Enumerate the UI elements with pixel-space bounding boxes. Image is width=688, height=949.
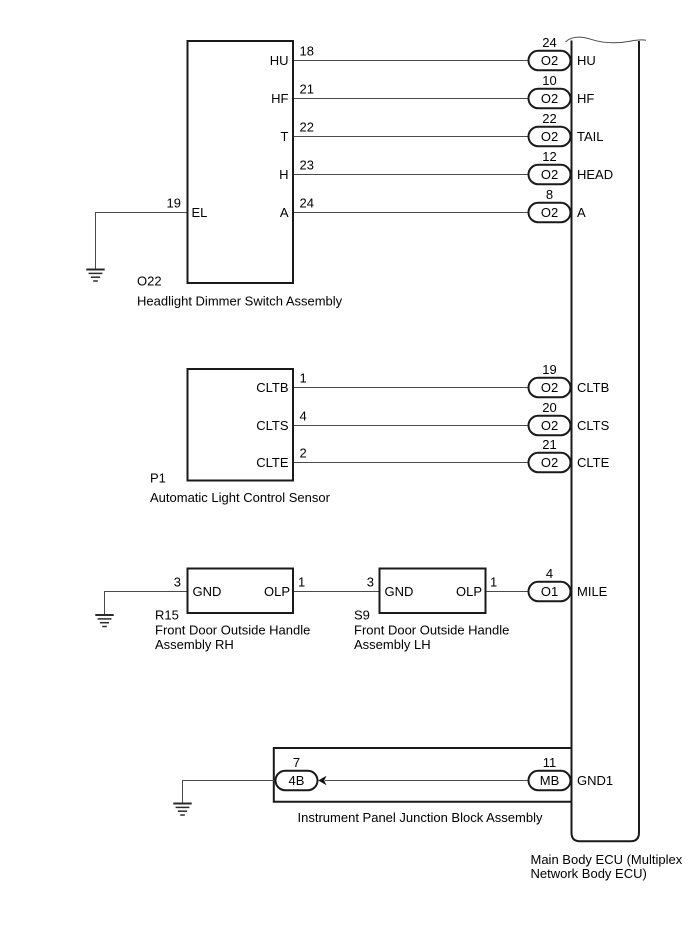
wire O22 pin 24 (A) to ECU connector O2 pin 8	[294, 212, 529, 214]
wire R15 pin 1 to S9 pin 3	[294, 591, 379, 593]
svg-text:23: 23	[300, 158, 314, 173]
svg-text:GND1: GND1	[577, 773, 613, 788]
svg-text:MILE: MILE	[577, 584, 608, 599]
wire ground to junction block connector 4B pin 7	[183, 781, 277, 804]
svg-text:MB: MB	[540, 773, 560, 788]
wire R15 pin 3 to ground	[105, 592, 187, 616]
svg-text:4: 4	[300, 409, 307, 424]
svg-text:2: 2	[300, 446, 307, 461]
connector O2 pin 12	[529, 165, 571, 185]
svg-text:O2: O2	[541, 380, 558, 395]
svg-text:18: 18	[300, 44, 314, 59]
svg-text:HF: HF	[271, 91, 288, 106]
wire P1 pin 2 (CLTE) to ECU connector O2 pin 21	[294, 462, 529, 464]
connector O2 pin 22	[529, 127, 571, 147]
svg-text:HF: HF	[577, 91, 594, 106]
connector 4B pin 7	[276, 771, 318, 791]
svg-text:22: 22	[542, 111, 556, 126]
svg-text:Automatic Light Control Sensor: Automatic Light Control Sensor	[150, 490, 331, 505]
connector O2 pin 19	[529, 378, 571, 398]
svg-text:Assembly LH: Assembly LH	[354, 637, 431, 652]
svg-text:21: 21	[542, 437, 556, 452]
svg-text:1: 1	[298, 575, 305, 590]
svg-text:3: 3	[367, 575, 374, 590]
svg-text:TAIL: TAIL	[577, 129, 604, 144]
svg-text:T: T	[281, 129, 289, 144]
svg-text:7: 7	[293, 755, 300, 770]
ground (EL)	[86, 269, 104, 271]
wire S9 pin 1 to ECU connector O1 pin 4	[487, 591, 529, 593]
connector O2 pin 8	[529, 203, 571, 223]
svg-text:OLP: OLP	[264, 584, 290, 599]
svg-text:19: 19	[542, 362, 556, 377]
svg-text:O2: O2	[541, 418, 558, 433]
svg-text:Assembly RH: Assembly RH	[155, 637, 234, 652]
connector O2 pin 10	[529, 89, 571, 109]
svg-text:4B: 4B	[289, 773, 305, 788]
box Instrument Panel Junction Block Assembly	[274, 748, 572, 802]
svg-text:CLTB: CLTB	[256, 380, 288, 395]
svg-text:24: 24	[300, 196, 314, 211]
connector O1 pin 4	[529, 582, 571, 602]
svg-text:8: 8	[546, 187, 553, 202]
svg-text:CLTS: CLTS	[256, 418, 289, 433]
svg-text:O2: O2	[541, 167, 558, 182]
svg-text:1: 1	[490, 575, 497, 590]
svg-text:HEAD: HEAD	[577, 167, 613, 182]
svg-text:HU: HU	[577, 53, 596, 68]
svg-text:12: 12	[542, 149, 556, 164]
svg-text:Front Door Outside Handle: Front Door Outside Handle	[155, 623, 310, 638]
wire O22 pin 22 (T) to ECU connector O2 pin 22	[294, 136, 529, 138]
box S9 Front Door Outside Handle Assembly LH	[380, 569, 486, 614]
svg-text:P1: P1	[150, 471, 166, 486]
svg-text:OLP: OLP	[456, 584, 482, 599]
svg-text:21: 21	[300, 82, 314, 97]
svg-text:H: H	[279, 167, 288, 182]
ECU torn-edge wavy top line	[566, 37, 647, 43]
wire O22 pin 21 (HF) to ECU connector O2 pin 10	[294, 98, 529, 100]
connector MB pin 11	[529, 771, 571, 791]
svg-text:A: A	[280, 205, 289, 220]
wire junction block 4B to connector MB pin 11	[325, 780, 529, 782]
connector O2 pin 21	[529, 453, 571, 473]
svg-text:CLTB: CLTB	[577, 380, 609, 395]
svg-text:GND: GND	[385, 584, 414, 599]
wire O22 pin 23 (H) to ECU connector O2 pin 12	[294, 174, 529, 176]
wire O22 pin 18 (HU) to ECU connector O2 pin 24	[294, 60, 529, 62]
svg-text:10: 10	[542, 73, 556, 88]
svg-text:1: 1	[300, 371, 307, 386]
box R15 Front Door Outside Handle Assembly RH	[188, 569, 294, 614]
svg-text:CLTE: CLTE	[256, 455, 289, 470]
connector O2 pin 20	[529, 416, 571, 436]
svg-text:Network Body ECU): Network Body ECU)	[531, 866, 647, 881]
svg-text:O2: O2	[541, 91, 558, 106]
svg-text:Instrument Panel Junction Bloc: Instrument Panel Junction Block Assembly	[298, 810, 543, 825]
svg-text:CLTE: CLTE	[577, 455, 610, 470]
svg-text:22: 22	[300, 120, 314, 135]
svg-text:S9: S9	[354, 608, 370, 623]
svg-text:4: 4	[546, 566, 553, 581]
svg-text:24: 24	[542, 35, 556, 50]
svg-text:O22: O22	[137, 274, 162, 289]
svg-text:O2: O2	[541, 205, 558, 220]
svg-text:O2: O2	[541, 455, 558, 470]
svg-text:A: A	[577, 205, 586, 220]
svg-text:CLTS: CLTS	[577, 418, 610, 433]
svg-text:O2: O2	[541, 129, 558, 144]
wire O22 pin 19 (EL) to ground	[96, 213, 187, 270]
ground (R15 GND)	[95, 614, 113, 616]
wire P1 pin 4 (CLTS) to ECU connector O2 pin 20	[294, 425, 529, 427]
svg-text:O2: O2	[541, 53, 558, 68]
svg-text:19: 19	[167, 196, 181, 211]
connector O2 pin 24	[529, 51, 571, 71]
svg-text:3: 3	[174, 575, 181, 590]
svg-text:11: 11	[543, 755, 557, 770]
box P1 Automatic Light Control Sensor	[188, 369, 294, 481]
svg-text:Headlight Dimmer Switch Assemb: Headlight Dimmer Switch Assembly	[137, 294, 343, 309]
svg-text:HU: HU	[270, 53, 289, 68]
ground (junction block 4B)	[173, 803, 191, 805]
arrowhead pointing into 4B	[318, 776, 326, 785]
svg-text:EL: EL	[192, 205, 208, 220]
svg-text:O1: O1	[541, 584, 558, 599]
svg-text:Front Door Outside Handle: Front Door Outside Handle	[354, 623, 509, 638]
svg-text:R15: R15	[155, 608, 179, 623]
svg-text:20: 20	[542, 400, 556, 415]
ECU body outline: Main Body ECU (Multiplex Network Body ECU)	[572, 41, 640, 842]
box O22 Headlight Dimmer Switch Assembly	[188, 41, 294, 283]
wire P1 pin 1 (CLTB) to ECU connector O2 pin 19	[294, 387, 529, 389]
svg-text:Main Body ECU (Multiplex: Main Body ECU (Multiplex	[531, 852, 683, 867]
svg-text:GND: GND	[193, 584, 222, 599]
